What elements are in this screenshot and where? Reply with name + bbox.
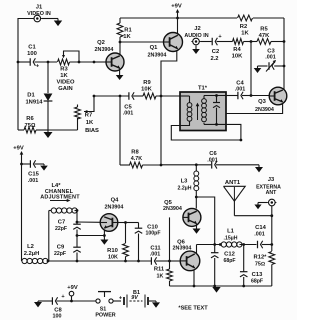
ground at C8	[34, 301, 42, 307]
capacitor C6 .001	[207, 151, 218, 169]
svg-text:L1: L1	[227, 228, 235, 234]
svg-text:1K: 1K	[123, 34, 131, 40]
ground at D1 R6	[44, 130, 78, 138]
node C5 R8 junction	[119, 95, 122, 98]
svg-text:+9V: +9V	[13, 146, 24, 152]
node rail R5	[283, 40, 286, 43]
node C12 crossing	[213, 243, 216, 246]
node antenna output	[270, 243, 273, 246]
capacitor C10 100pF	[135, 223, 161, 262]
svg-text:+9V: +9V	[67, 285, 78, 291]
node C10 bottom	[137, 260, 140, 263]
svg-text:Q2: Q2	[97, 40, 105, 46]
wire Q1 collector	[177, 18, 179, 34]
svg-text:*SEE TEXT: *SEE TEXT	[178, 306, 208, 312]
svg-text:9V: 9V	[131, 295, 138, 301]
svg-text:C13: C13	[252, 272, 263, 278]
svg-text:100: 100	[53, 314, 62, 320]
diode D1 1N914	[25, 62, 52, 130]
antenna ANT1	[224, 180, 246, 216]
wire antenna to J3 node	[234, 215, 271, 217]
svg-text:22pF: 22pF	[55, 226, 67, 232]
wire tank net	[197, 244, 222, 246]
svg-text:2.2: 2.2	[210, 56, 218, 62]
svg-text:22pF: 22pF	[54, 251, 66, 257]
node R8 right	[160, 164, 163, 167]
wire C6 to ground	[216, 164, 259, 166]
svg-text:1K: 1K	[86, 120, 94, 126]
svg-text:R8: R8	[131, 150, 139, 156]
svg-text:R12*: R12*	[254, 255, 268, 261]
node C7 C9 junction	[76, 234, 79, 237]
wire Q4 collector	[118, 222, 126, 224]
svg-text:.15µH: .15µH	[224, 235, 238, 241]
node +9V terminal	[70, 300, 73, 303]
transistor Q3 2N3904	[255, 87, 287, 113]
wire collector to C10	[126, 222, 139, 224]
node R3 right	[78, 61, 81, 64]
wire node to R5	[251, 41, 257, 43]
wire +9V rail down to L2	[21, 164, 23, 259]
svg-text:68pF: 68pF	[223, 258, 235, 264]
svg-text:L2: L2	[27, 244, 34, 250]
ground at Q5	[193, 224, 201, 234]
svg-text:POWER: POWER	[95, 312, 115, 318]
svg-text:VIDEO: VIDEO	[56, 80, 75, 86]
node Q6 emitter rail	[193, 285, 196, 288]
ground at J1	[54, 19, 62, 27]
transistor Q4 2N3904	[100, 198, 123, 232]
svg-text:68pF: 68pF	[251, 278, 263, 284]
svg-text:J3: J3	[268, 177, 275, 183]
node rail C3	[283, 65, 286, 68]
capacitor C13 68pF	[240, 245, 263, 287]
wire C7C9 node to Q4 emitter	[77, 235, 104, 237]
svg-text:2N3904: 2N3904	[95, 47, 114, 53]
capacitor C4 .001	[235, 81, 246, 100]
transformer T1 box	[180, 85, 226, 130]
wire bias node down	[250, 42, 252, 96]
ground at Q4	[100, 240, 108, 245]
wire T1 bottom left loop	[171, 124, 241, 140]
potentiometer R3 1K VIDEO GAIN	[56, 51, 79, 92]
wire right rail	[283, 18, 285, 90]
node R4 R5 junction	[250, 40, 253, 43]
node Q4 emitter bias	[103, 234, 106, 237]
svg-text:L3: L3	[181, 179, 189, 185]
svg-text:.001: .001	[28, 178, 39, 184]
ground at Q2 emitter	[116, 68, 124, 80]
resistor R4 10K	[232, 39, 244, 60]
svg-text:ADJUSTMENT: ADJUSTMENT	[40, 194, 80, 200]
wire ground to C3	[258, 65, 268, 67]
capacitor inside T1	[213, 96, 220, 125]
node antenna junction	[270, 214, 273, 217]
node L3 top	[195, 163, 198, 166]
transistor Q2 2N3904	[95, 40, 124, 71]
svg-text:R6: R6	[26, 116, 34, 122]
resistor R2 1K	[238, 15, 253, 36]
wire C3 to rail	[274, 65, 284, 67]
trimmer capacitor C3 .001	[265, 49, 276, 72]
svg-text:Q1: Q1	[150, 45, 159, 51]
node D1 top	[47, 61, 50, 64]
resistor R6 75ohm	[18, 116, 48, 133]
resistor R5 47K	[257, 27, 271, 45]
svg-text:.001: .001	[123, 111, 134, 117]
node Q4 base branch	[76, 221, 79, 224]
capacitor C11 .001	[150, 245, 162, 264]
resistor R12 75ohm	[254, 245, 275, 287]
wire Q6 emitter	[193, 270, 195, 286]
svg-text:AUDIO IN: AUDIO IN	[184, 33, 208, 39]
node Q5Q6 base bias	[168, 260, 171, 263]
node Q2 base branch	[93, 61, 96, 64]
wire C2 to R4	[217, 41, 233, 43]
ground at C6 wire	[255, 165, 263, 173]
node C13 rail	[242, 285, 245, 288]
node L2 right	[47, 260, 50, 263]
svg-text:1K: 1K	[60, 73, 68, 79]
transistor Q6 2N3904	[173, 239, 200, 270]
wire R9 to T1	[156, 95, 180, 97]
wire B1 to ground	[149, 300, 156, 302]
transistor Q5 2N3904	[163, 200, 201, 226]
ground at B1	[152, 301, 160, 308]
wire Q2 collector	[119, 42, 121, 55]
svg-text:C12: C12	[224, 252, 235, 258]
wire base node to Q1	[120, 41, 164, 43]
svg-text:GAIN: GAIN	[58, 86, 73, 92]
wire R3 to Q2 base node	[70, 61, 95, 63]
wire Q4 emitter	[103, 230, 105, 240]
svg-text:C14: C14	[255, 225, 266, 231]
svg-text:2N3904: 2N3904	[255, 107, 274, 113]
ground at C15	[35, 164, 48, 171]
wire Q5 collector to C12 drop	[196, 197, 214, 245]
wire ground to C8	[38, 300, 52, 302]
capacitor C7 22pF	[55, 220, 81, 236]
svg-text:100: 100	[27, 51, 37, 57]
capacitor C8 100	[52, 294, 65, 320]
capacitor C9 22pF	[54, 236, 81, 262]
connector J1 VIDEO IN	[27, 5, 51, 22]
capacitor C2 2.2	[210, 34, 222, 62]
capacitor C12 68pF	[211, 245, 236, 287]
wire S1 to B1	[113, 295, 123, 301]
svg-text:C1: C1	[28, 45, 36, 51]
capacitor C1	[27, 45, 40, 70]
svg-text:2N3904: 2N3904	[148, 53, 167, 59]
node C9 bottom	[76, 260, 79, 263]
node R1 Q1 base junction	[119, 41, 122, 44]
svg-text:ANT: ANT	[266, 190, 277, 196]
wire node to Q2 base	[94, 61, 106, 63]
inductor L2 2.2uH	[22, 244, 48, 264]
node C1 left junction	[17, 61, 20, 64]
wire input node	[18, 61, 30, 63]
wire L4 to C7	[76, 211, 78, 223]
ground at J3	[254, 203, 267, 210]
wire C8 to terminal node	[57, 300, 97, 302]
wire C4 to node	[242, 95, 251, 97]
svg-text:J1: J1	[36, 5, 43, 11]
node T1 loop corner	[240, 139, 243, 142]
resistor R1 1K	[117, 18, 132, 42]
wire ground rail	[170, 285, 272, 287]
node C13 top	[242, 243, 245, 246]
node C4 Q3 base	[250, 94, 253, 97]
svg-text:R3: R3	[60, 67, 68, 73]
inductor L4 CHANNEL ADJUSTMENT	[40, 183, 80, 213]
svg-text:1K: 1K	[157, 274, 164, 280]
svg-text:75Ω: 75Ω	[25, 123, 36, 129]
power +9V left	[13, 146, 24, 164]
node Q5 collector L3	[195, 196, 198, 199]
wire C15 branch	[22, 163, 31, 165]
wire bottom net	[48, 260, 151, 262]
svg-text:4.7K: 4.7K	[131, 156, 142, 162]
switch S1 POWER	[95, 292, 115, 319]
resistor R8 4.7K	[120, 96, 161, 168]
svg-text:.001: .001	[265, 55, 276, 61]
capacitor C15 .001	[28, 160, 40, 184]
transformer T1 primary	[180, 96, 192, 126]
node L1 left	[219, 243, 222, 246]
svg-text:C10: C10	[147, 224, 158, 230]
wire +9V top rail	[120, 17, 284, 19]
svg-text:Q4: Q4	[111, 198, 120, 204]
node R10 bottom	[124, 260, 127, 263]
wire R5 to right rail	[271, 41, 284, 43]
resistor R9 10K	[141, 80, 156, 99]
svg-text:47K: 47K	[259, 33, 270, 39]
svg-text:T1*: T1*	[198, 85, 208, 91]
inductor L3 2.2uH	[178, 165, 199, 197]
wire C11 to base node	[156, 260, 170, 262]
svg-text:1K: 1K	[241, 31, 249, 37]
wire J1 left and down left rail	[18, 19, 34, 131]
svg-text:2.2µH: 2.2µH	[178, 186, 192, 192]
wire Q5 base riser	[169, 217, 171, 261]
svg-text:C2: C2	[212, 49, 219, 55]
wire C5 to R9	[133, 95, 143, 97]
svg-text:C7: C7	[58, 220, 65, 226]
wire C7 node to Q4 base	[77, 221, 100, 223]
svg-text:2N3904: 2N3904	[173, 245, 192, 251]
battery B1 9V	[124, 290, 148, 307]
svg-text:2N3904: 2N3904	[163, 206, 182, 212]
svg-text:10K: 10K	[232, 54, 243, 60]
svg-text:C9: C9	[57, 245, 65, 251]
wire J2 to C2	[201, 41, 212, 43]
node emitter line crossing	[160, 95, 163, 98]
svg-text:R9: R9	[143, 80, 151, 86]
node T1 secondary bottom	[215, 123, 218, 126]
svg-text:VIDEO IN: VIDEO IN	[27, 11, 51, 17]
wire R8 node to C6	[161, 164, 211, 166]
svg-text:R2: R2	[240, 24, 247, 30]
wire C14 to node	[262, 244, 272, 246]
wire Q3 emitter to T1	[226, 104, 283, 114]
capacitor C5 .001	[123, 92, 134, 116]
node C15 junction	[20, 163, 23, 166]
transistor Q1 2N3904	[148, 33, 183, 59]
svg-text:R7: R7	[85, 113, 92, 119]
node T1 secondary top	[215, 94, 218, 97]
transformer T1 secondary	[202, 96, 226, 125]
wire C1 to D1 node	[35, 61, 58, 63]
node R7 wiper top	[93, 95, 96, 98]
svg-text:1N914: 1N914	[25, 100, 43, 106]
svg-text:Q3: Q3	[258, 99, 267, 105]
svg-text:.001: .001	[235, 86, 246, 92]
svg-text:C6: C6	[209, 151, 217, 157]
svg-text:10K: 10K	[141, 87, 152, 93]
svg-text:2N3904: 2N3904	[105, 205, 124, 211]
wire L1 to node	[240, 244, 257, 246]
svg-text:D1: D1	[27, 93, 35, 99]
wire J1 to ground	[42, 18, 54, 20]
svg-text:ANT1: ANT1	[225, 180, 241, 186]
wire node to Q3 base	[251, 95, 269, 97]
inductor L1 .15uH	[221, 228, 242, 247]
svg-text:75Ω: 75Ω	[255, 261, 265, 267]
transformer T1 core arrow	[196, 103, 200, 120]
note SEE TEXT	[178, 306, 208, 312]
svg-text:2.2µH: 2.2µH	[24, 251, 40, 257]
power terminal +9V bottom	[67, 285, 78, 301]
svg-text:.001: .001	[207, 157, 218, 163]
wire J3 riser	[271, 206, 273, 245]
svg-text:R10: R10	[107, 248, 118, 254]
potentiometer R7 1K BIAS	[75, 96, 99, 134]
connector J3 EXTERNA ANT	[256, 177, 281, 206]
node Q4 collector	[124, 221, 127, 224]
svg-text:R4: R4	[233, 47, 241, 53]
wire Q1 emitter jog	[161, 51, 177, 165]
ground at C3	[254, 66, 262, 73]
svg-text:R1: R1	[124, 28, 132, 34]
node C12 rail	[213, 285, 216, 288]
resistor R11 1K	[154, 261, 173, 286]
svg-text:R11: R11	[154, 267, 165, 273]
capacitor C14 .001	[254, 225, 266, 248]
wire node to Q6 base	[170, 260, 181, 262]
wire R7 node to C5	[94, 95, 129, 97]
svg-text:.001: .001	[150, 251, 161, 257]
power +9V top	[171, 4, 182, 18]
wire R4 to node	[244, 41, 252, 43]
svg-text:C8: C8	[54, 307, 62, 313]
svg-text:+9V: +9V	[171, 4, 182, 10]
wire Q5 collector	[195, 197, 197, 209]
svg-text:C15: C15	[28, 172, 39, 178]
ground at J2	[192, 46, 200, 55]
svg-text:10K: 10K	[108, 254, 118, 260]
node L4 right	[76, 209, 79, 212]
wire Q6 collector	[196, 245, 198, 254]
node +9V top	[176, 17, 179, 20]
connector J2 AUDIO IN	[184, 26, 208, 45]
svg-text:100pF: 100pF	[146, 231, 161, 237]
wire L4 left leg	[48, 211, 50, 262]
wire T1 to C4	[226, 95, 238, 97]
resistor R10 10K	[107, 223, 128, 262]
svg-text:BIAS: BIAS	[85, 128, 99, 134]
ground at rail	[212, 287, 220, 293]
svg-text:.001: .001	[254, 231, 265, 237]
svg-text:J2: J2	[194, 26, 200, 32]
svg-text:R5: R5	[260, 27, 268, 33]
